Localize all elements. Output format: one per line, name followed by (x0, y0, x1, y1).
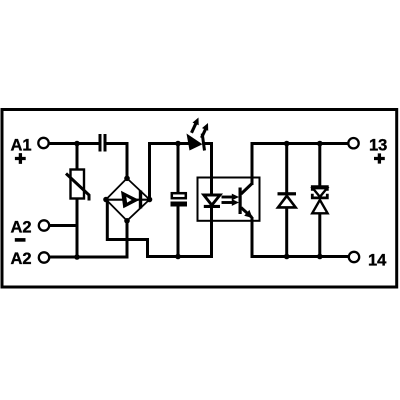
junction D4 bottom (317, 254, 323, 260)
terminal A2 upper (39, 220, 49, 230)
wire D4 top lead (318, 144, 321, 187)
optocoupler box U1 (198, 178, 260, 221)
label + (A1) (15, 153, 26, 164)
enclosure box (2, 110, 397, 288)
junction D3 top (284, 141, 290, 147)
svg-text:A2: A2 (11, 250, 32, 268)
svg-text:A1: A1 (11, 137, 32, 155)
junction A1 rail / varistor (74, 141, 80, 147)
opto coupling arrows (222, 194, 240, 206)
diode D3 (278, 192, 297, 207)
wire emitter down (251, 217, 254, 257)
wire top rail right (251, 142, 349, 145)
capacitor C1 (99, 134, 107, 152)
wire varistor bottom lead (76, 199, 79, 259)
label minus (A2) (15, 238, 26, 242)
wire varistor top lead (76, 144, 79, 171)
terminal A2 lower (39, 252, 49, 262)
svg-text:A2: A2 (11, 219, 32, 237)
label + (13) (374, 153, 385, 163)
wire C2 bottom lead (177, 207, 180, 259)
junction A2 lower rail / varistor (74, 254, 80, 260)
wire bridge DC minus down and right (107, 200, 147, 258)
junction C2 bottom (175, 254, 181, 260)
wire A1 to C1 (49, 142, 99, 145)
wire opto LED cathode (210, 208, 213, 259)
wire C1 to bridge top (107, 144, 128, 179)
wire bridge DC plus riser (148, 144, 151, 201)
opto phototransistor Q1 (239, 184, 253, 219)
svg-text:13: 13 (369, 137, 387, 155)
opto LED (204, 195, 220, 208)
TVS suppressor D4 (312, 187, 327, 214)
wire collector riser (251, 144, 254, 186)
wire D3 top lead (285, 144, 288, 194)
wire A2 lower rail (49, 256, 128, 259)
junction C2 top (175, 141, 181, 147)
junction D3 bottom (284, 254, 290, 260)
wire bridge bottom to A2 rail (126, 221, 129, 258)
varistor RV1 (66, 170, 89, 201)
bridge rectifier B1 (103, 176, 152, 224)
svg-text:14: 14 (368, 252, 387, 270)
LED D1 (187, 118, 209, 151)
terminal 13 (348, 138, 358, 148)
junction D4 top (317, 141, 323, 147)
wire D3 bottom lead (285, 208, 288, 259)
wire top rail to LED (148, 142, 190, 145)
wire C2 top lead (177, 144, 180, 193)
terminal 14 (349, 252, 359, 262)
wire bottom rail right (251, 255, 349, 258)
capacitor C2 (171, 193, 188, 206)
wire A2 upper to varistor branch (49, 224, 78, 227)
wire LED to opto LED anode (203, 144, 212, 195)
wire DC minus bottom rail (146, 255, 213, 258)
terminal A1 (38, 138, 48, 148)
wire D4 bottom lead (318, 214, 321, 259)
